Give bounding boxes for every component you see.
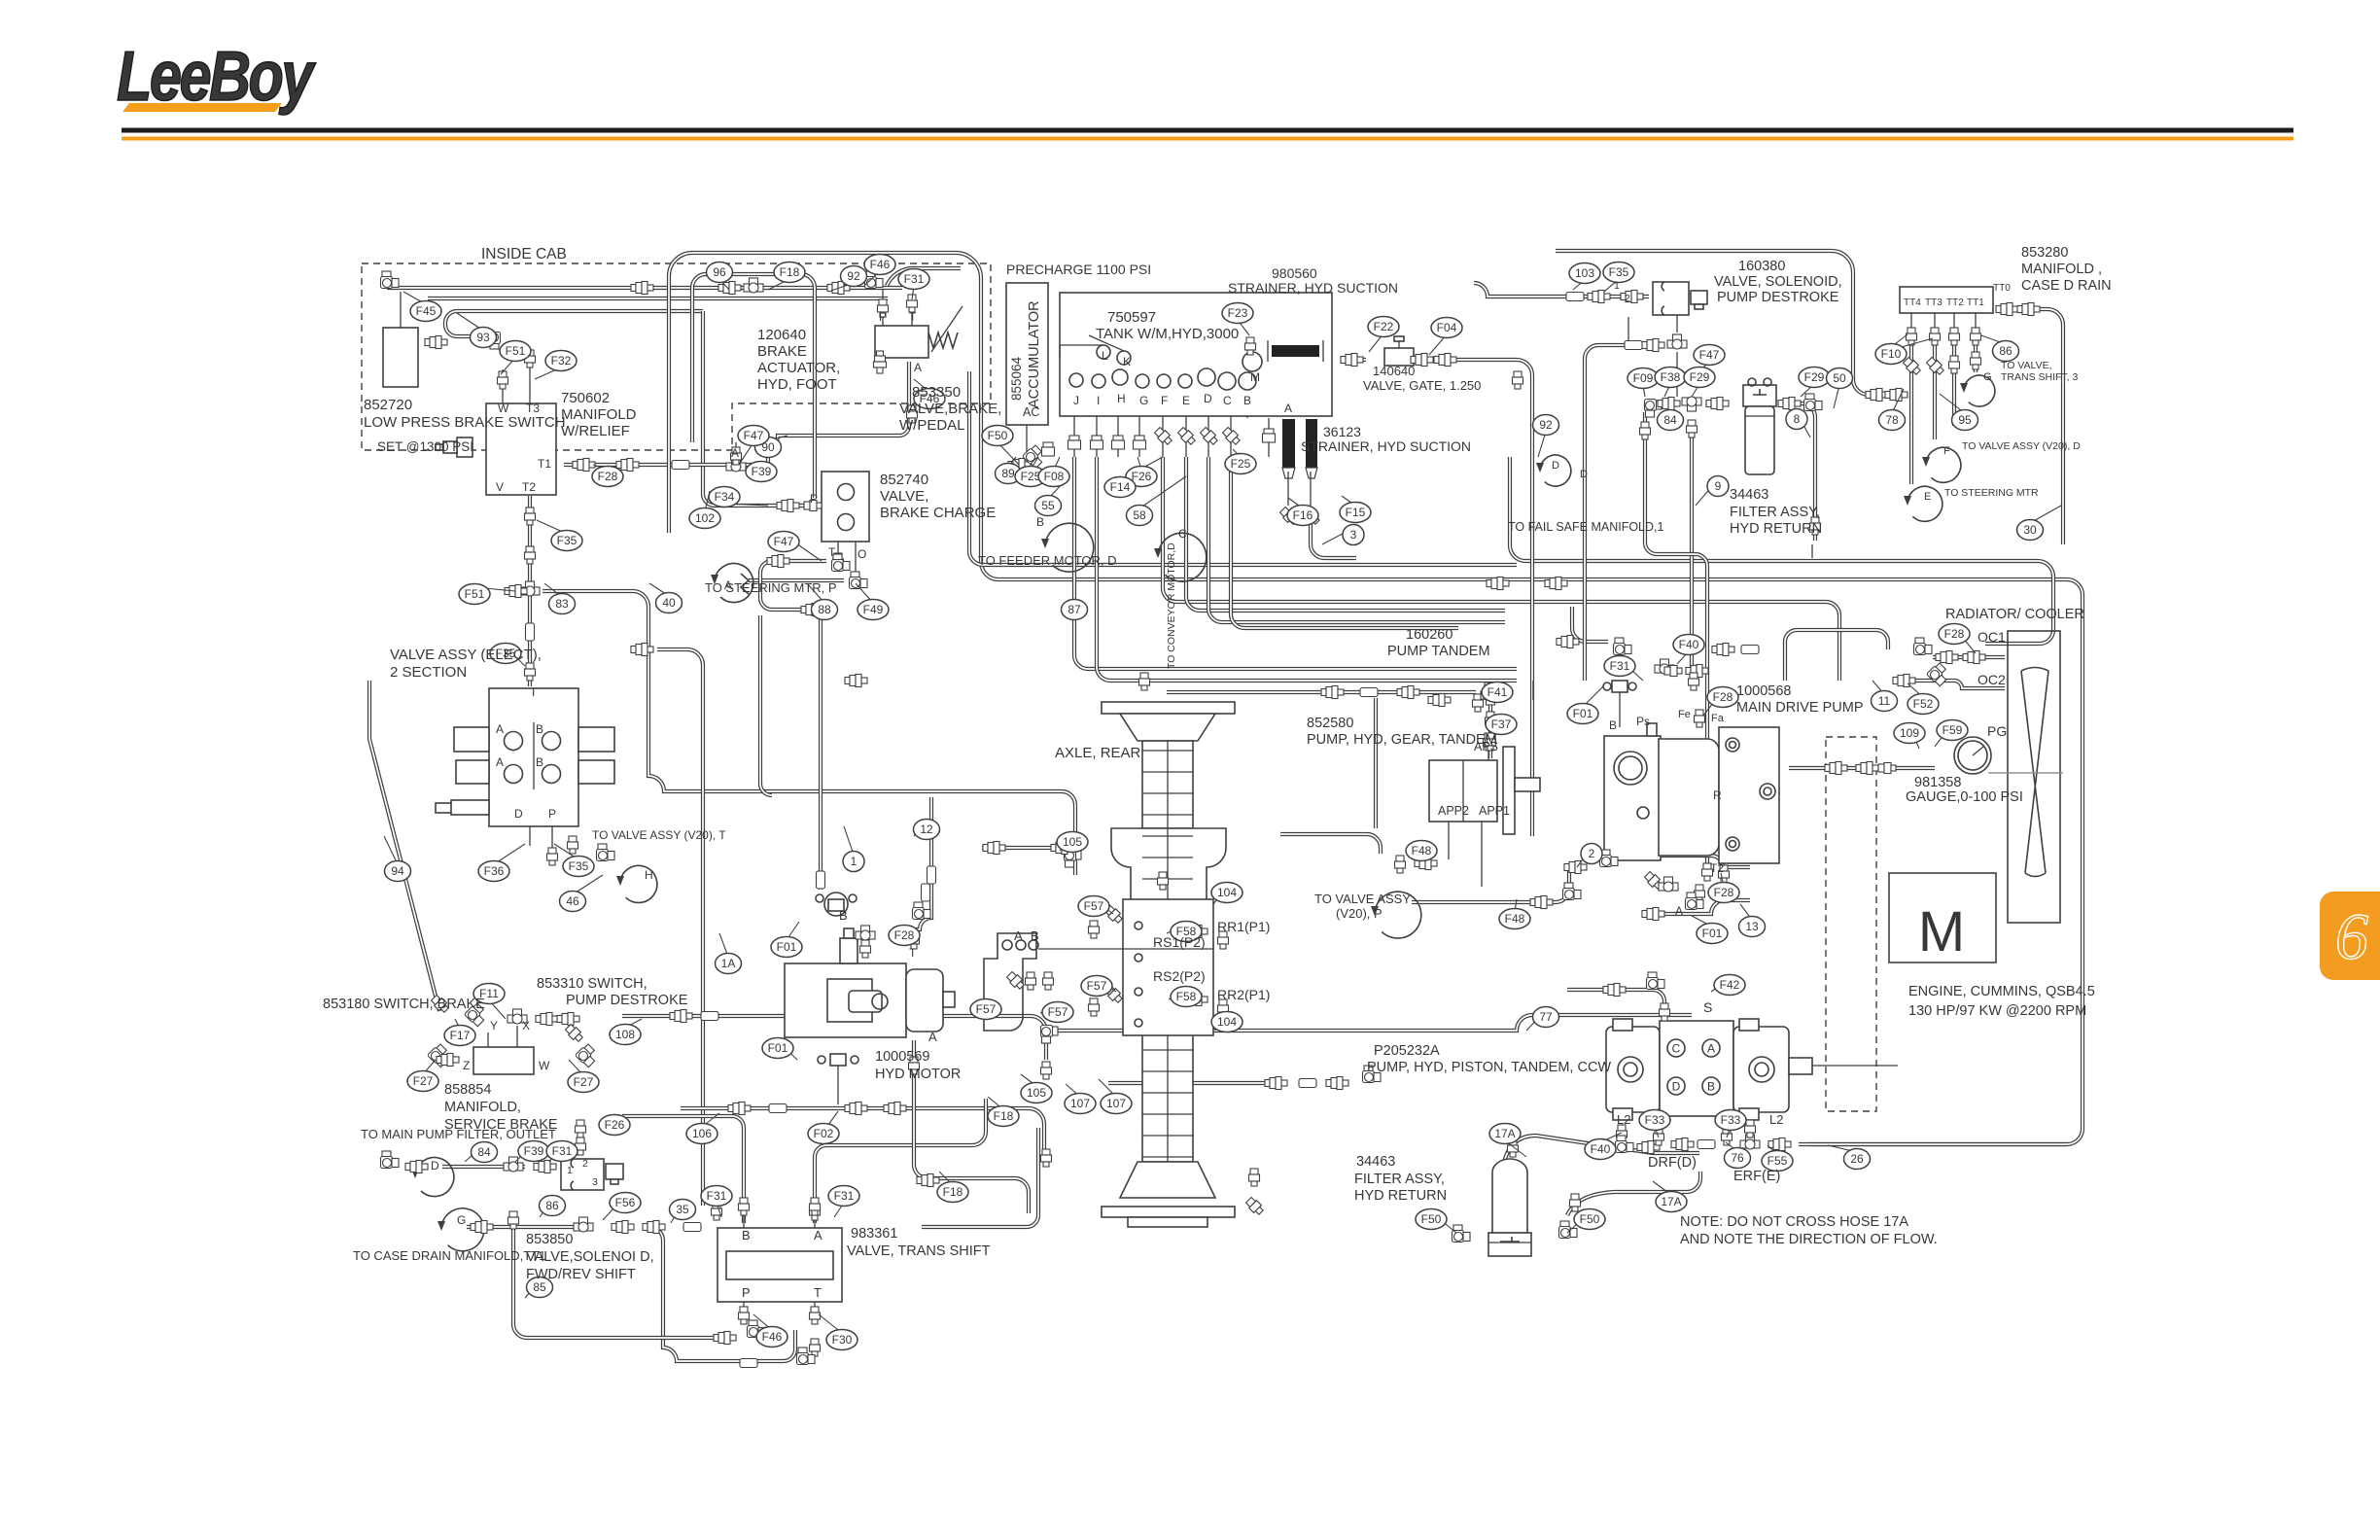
fitting (860, 940, 871, 958)
svg-text:VALVE ASSY (ELECT),: VALVE ASSY (ELECT), (390, 647, 542, 663)
gauge PG (1954, 737, 1991, 774)
fitting (504, 1157, 523, 1172)
fitting (728, 1102, 751, 1115)
svg-text:46: 46 (566, 894, 579, 908)
callout 94 (385, 861, 411, 882)
callout 11 (1872, 691, 1898, 712)
svg-text:A: A (731, 446, 739, 460)
rotation arrow node (620, 865, 657, 902)
svg-text:F36: F36 (484, 864, 505, 878)
svg-text:F31: F31 (707, 1189, 727, 1203)
svg-text:TT0: TT0 (1993, 283, 2011, 294)
wire (529, 369, 531, 403)
fitting (1885, 389, 1907, 402)
svg-text:A: A (1014, 928, 1023, 943)
callout F41 (1482, 682, 1513, 703)
fitting (1682, 397, 1701, 411)
fitting (1768, 1138, 1791, 1151)
svg-text:APP2: APP2 (1438, 804, 1469, 818)
tank port (1117, 351, 1131, 365)
svg-text:D: D (1580, 469, 1588, 480)
callout F35 (1603, 262, 1634, 283)
callout F26 (599, 1115, 630, 1136)
fitting (573, 459, 595, 472)
callout 104 (1211, 883, 1242, 903)
svg-text:D: D (431, 1159, 439, 1172)
callout 83 (549, 594, 576, 614)
hose 26 bottom (1799, 1142, 2067, 1146)
hose F18 bottom (914, 1040, 1029, 1213)
svg-text:F57: F57 (976, 1002, 997, 1016)
svg-text:86: 86 (545, 1199, 559, 1212)
fitting (1664, 666, 1682, 677)
rotation arrow node (415, 1158, 454, 1197)
svg-text:VALVE,: VALVE, (880, 488, 928, 505)
svg-text:TO CASE DRAIN MANIFOLD,TT1: TO CASE DRAIN MANIFOLD,TT1 (353, 1248, 545, 1263)
callout F42 (1714, 975, 1745, 996)
hose 11 left (1785, 630, 1888, 681)
fitting (1265, 1077, 1287, 1090)
callout 85 (527, 1277, 553, 1298)
callout F47 (1694, 345, 1725, 366)
hose tank suction (1341, 358, 1366, 362)
fitting (1263, 429, 1276, 442)
callout F57 (1081, 976, 1112, 997)
fitting (1659, 877, 1678, 892)
callout F50 (1416, 1209, 1447, 1230)
callout F25 (1015, 467, 1046, 487)
callout F22 (1368, 317, 1399, 337)
wire (1138, 388, 1140, 457)
fitting (810, 1203, 821, 1220)
svg-text:STRAINER, HYD SUCTION: STRAINER, HYD SUCTION (1301, 438, 1471, 454)
svg-text:F18: F18 (994, 1109, 1014, 1123)
svg-text:17A: 17A (1494, 1127, 1515, 1140)
hose 2 right (1600, 856, 1750, 867)
main drive pump 1000568 (1604, 723, 1779, 863)
svg-text:55: 55 (1041, 499, 1055, 512)
fitting (1341, 354, 1363, 367)
fitting (534, 1161, 556, 1173)
svg-text:F51: F51 (506, 344, 526, 358)
hose trans B up (622, 1116, 744, 1223)
callout F15 (1340, 503, 1371, 523)
fitting (1278, 506, 1299, 526)
hose 107 loop (922, 1128, 1038, 1227)
fitting (1642, 339, 1664, 352)
svg-text:M: M (1918, 900, 1965, 963)
svg-text:FWD/REV SHIFT: FWD/REV SHIFT (526, 1267, 636, 1282)
hose 86 row (467, 1225, 583, 1229)
svg-text:17A: 17A (1661, 1195, 1681, 1208)
fitting (465, 1002, 489, 1027)
svg-text:120640: 120640 (757, 327, 806, 343)
svg-text:A: A (1707, 1042, 1715, 1056)
svg-text:TO VALVE ASSY (V20), T: TO VALVE ASSY (V20), T (592, 828, 726, 842)
hose 9 drop (1690, 420, 1694, 676)
wire (1487, 734, 1489, 760)
svg-text:F27: F27 (574, 1075, 594, 1089)
callout 106 (686, 1124, 717, 1144)
svg-text:G: G (457, 1213, 466, 1227)
fitting (1564, 861, 1587, 874)
fitting (1023, 444, 1047, 469)
fitting (777, 500, 799, 512)
wire (837, 1066, 839, 1104)
svg-text:106: 106 (692, 1127, 712, 1140)
svg-text:F50: F50 (1580, 1212, 1600, 1226)
fitting (1616, 1136, 1634, 1153)
callout 89 (996, 464, 1022, 484)
fitting (1741, 646, 1759, 654)
fitting (1249, 1169, 1260, 1186)
fitting (1486, 712, 1496, 729)
svg-text:F56: F56 (615, 1196, 636, 1209)
fitting (405, 1161, 428, 1173)
svg-text:C: C (1672, 1042, 1681, 1056)
RS valve block (1038, 899, 1213, 1035)
hose top backbone (669, 253, 2082, 1144)
fitting (381, 271, 400, 289)
svg-text:TO CONVEYOR MOTOR,D: TO CONVEYOR MOTOR,D (1166, 542, 1177, 669)
fitting (907, 405, 918, 423)
svg-text:E: E (1182, 394, 1190, 407)
svg-text:G: G (1983, 371, 1992, 383)
fitting (1103, 904, 1124, 925)
svg-text:P: P (810, 492, 818, 506)
tank port (1239, 372, 1256, 390)
svg-text:AND NOTE THE DIRECTION OF FLOW: AND NOTE THE DIRECTION OF FLOW. (1680, 1232, 1938, 1247)
fitting (1484, 682, 1502, 700)
callout F10 (1875, 344, 1907, 365)
wire (1310, 472, 1312, 506)
svg-text:102: 102 (695, 511, 715, 525)
hose 85b (513, 1212, 724, 1338)
fitting (526, 623, 535, 641)
svg-text:84: 84 (477, 1145, 491, 1159)
fitting (1745, 1120, 1756, 1137)
svg-text:F01: F01 (768, 1041, 788, 1055)
svg-text:F26: F26 (1132, 470, 1152, 483)
svg-text:93: 93 (476, 331, 490, 344)
fitting (683, 1223, 701, 1232)
svg-text:F14: F14 (1110, 480, 1131, 494)
svg-text:F31: F31 (1610, 659, 1630, 673)
svg-text:F01: F01 (1702, 927, 1723, 940)
hose gate valve to pump (1415, 360, 1532, 836)
hose caseDrain TT0 (2036, 309, 2063, 544)
svg-text:F39: F39 (752, 465, 772, 478)
svg-text:A: A (914, 361, 922, 374)
callout 17A (1489, 1124, 1521, 1144)
svg-text:1: 1 (567, 1165, 573, 1176)
callout 1A (716, 954, 742, 974)
callout 30 (2017, 520, 2044, 541)
svg-text:858854: 858854 (444, 1082, 491, 1098)
wire (1246, 390, 1248, 418)
fitting (927, 866, 936, 884)
callout 105 (1021, 1083, 1052, 1103)
callout 9 (1707, 476, 1729, 497)
svg-text:MANIFOLD,: MANIFOLD, (444, 1100, 521, 1115)
svg-text:853280: 853280 (2021, 245, 2068, 261)
fitting (856, 926, 875, 940)
svg-text:HYD, FOOT: HYD, FOOT (757, 376, 837, 393)
fitting (1199, 426, 1219, 446)
fitting (557, 1013, 579, 1026)
svg-text:F04: F04 (1437, 321, 1457, 334)
svg-text:F47: F47 (744, 429, 764, 442)
svg-text:F01: F01 (1573, 707, 1593, 720)
svg-text:F09: F09 (1633, 371, 1654, 385)
svg-text:RR2(P1): RR2(P1) (1217, 987, 1270, 1002)
hose 13 loop (1653, 900, 1750, 914)
fitting (1878, 763, 1896, 774)
svg-text:F08: F08 (1044, 470, 1065, 483)
callout 3 (1343, 525, 1364, 545)
svg-text:TT1: TT1 (1967, 297, 1984, 308)
fitting (1740, 1135, 1760, 1149)
hose 96 second row (428, 297, 888, 300)
callout F58 (1171, 987, 1202, 1007)
fitting (1686, 892, 1704, 910)
hose TT1 drop (1974, 340, 1977, 372)
svg-text:107: 107 (1106, 1097, 1126, 1110)
svg-text:F33: F33 (1721, 1113, 1741, 1127)
svg-text:86: 86 (1999, 344, 2012, 358)
fitting (1907, 328, 1917, 345)
fitting (597, 844, 615, 861)
callout F27 (407, 1071, 438, 1092)
hose second backbone (692, 274, 815, 498)
fitting (1089, 921, 1100, 938)
fitting (1068, 436, 1081, 449)
hose 577 run (1510, 457, 2053, 644)
svg-text:Fa: Fa (1711, 713, 1725, 724)
fitting (1245, 337, 1256, 355)
callout F46 (914, 389, 945, 409)
fitting (1971, 328, 1981, 345)
axle rear (1102, 702, 1235, 1227)
svg-text:TRANS SHIFT, 3: TRANS SHIFT, 3 (2001, 371, 2079, 383)
callout F01 (771, 937, 802, 958)
svg-text:D: D (1552, 460, 1559, 472)
svg-text:R: R (1713, 788, 1722, 802)
fitting (1588, 291, 1610, 303)
svg-text:F28: F28 (894, 928, 915, 942)
svg-text:13: 13 (1745, 920, 1759, 933)
wire (882, 290, 884, 326)
svg-text:OC2: OC2 (1977, 672, 2006, 687)
svg-text:85: 85 (533, 1280, 546, 1294)
case drain manifold 853280 (1900, 287, 1993, 313)
fitting (1856, 762, 1878, 775)
callout F28 (592, 467, 623, 487)
logo orange underline (122, 103, 282, 112)
wire (1230, 389, 1232, 457)
svg-text:30: 30 (2023, 523, 2037, 537)
fitting (1559, 1221, 1578, 1239)
svg-text:X: X (522, 1019, 530, 1032)
fitting (471, 1221, 493, 1234)
svg-text:TO STEERING MTR: TO STEERING MTR (1944, 487, 2039, 499)
svg-text:ACTUATOR,: ACTUATOR, (757, 360, 840, 376)
callout F26 (1126, 467, 1157, 487)
svg-text:107: 107 (1070, 1097, 1090, 1110)
svg-text:PRECHARGE 1100 PSI: PRECHARGE 1100 PSI (1006, 262, 1151, 277)
fitting (1686, 665, 1708, 678)
svg-text:F48: F48 (1412, 844, 1432, 857)
callout F38 (1655, 367, 1686, 388)
hose 85 T-return (760, 561, 838, 610)
svg-text:96: 96 (713, 265, 726, 279)
callout F37 (1486, 715, 1517, 735)
svg-text:P: P (879, 310, 887, 324)
hose TT4 drop (1909, 340, 1913, 484)
svg-text:F55: F55 (1767, 1154, 1788, 1168)
fitting (884, 1102, 906, 1115)
callout F28 (889, 926, 920, 946)
tank port (1198, 368, 1215, 386)
svg-text:O: O (857, 547, 866, 561)
fitting (1176, 426, 1197, 446)
fitting (850, 572, 868, 589)
fitting (1660, 1003, 1670, 1021)
fitting (1484, 733, 1494, 751)
callout F48 (1406, 841, 1437, 861)
svg-text:P: P (548, 807, 556, 821)
svg-text:F01: F01 (777, 940, 797, 954)
relief screw (436, 437, 472, 457)
svg-text:F35: F35 (569, 859, 589, 873)
fitting (1091, 436, 1103, 449)
svg-text:1000569: 1000569 (875, 1049, 929, 1065)
fitting (425, 336, 447, 349)
hose TT3 drop (1933, 340, 1937, 439)
fitting (1434, 354, 1456, 367)
svg-text:26: 26 (1850, 1152, 1864, 1166)
fitting (1914, 638, 1933, 655)
fitting (874, 351, 887, 373)
fitting (1065, 850, 1082, 868)
fitting (507, 1009, 527, 1024)
hose APS stem (1488, 699, 1492, 758)
fitting (748, 1320, 766, 1338)
svg-text:1: 1 (1614, 280, 1620, 292)
svg-text:RS2(P2): RS2(P2) (1153, 968, 1206, 984)
svg-text:TT2: TT2 (1946, 297, 1964, 308)
hose 88 steering (749, 578, 844, 582)
callout 17A (1656, 1192, 1687, 1212)
callout F50 (982, 426, 1013, 446)
fitting (1963, 651, 1985, 664)
svg-text:F50: F50 (988, 429, 1008, 442)
callout 58 (1127, 506, 1153, 526)
fitting (804, 501, 822, 511)
callout 90 (755, 437, 782, 458)
svg-text:B: B (1609, 718, 1617, 732)
svg-text:104: 104 (1217, 1015, 1237, 1029)
svg-text:B: B (1707, 1080, 1715, 1094)
fitting (1411, 354, 1433, 367)
fitting (1218, 931, 1229, 949)
fitting (1428, 694, 1451, 707)
svg-text:TO VALVE ASSY: TO VALVE ASSY (1314, 892, 1411, 906)
svg-text:92: 92 (847, 269, 860, 283)
callout F51 (500, 341, 531, 362)
fitting (909, 931, 920, 949)
hose 40 (542, 591, 1075, 852)
fitting (1643, 870, 1663, 891)
svg-text:F18: F18 (780, 265, 800, 279)
fitting (1712, 644, 1734, 656)
svg-text:2 SECTION: 2 SECTION (390, 664, 467, 681)
callout F34 (709, 487, 740, 507)
pump B flange F01 (1603, 681, 1636, 692)
svg-text:B: B (742, 1228, 751, 1242)
svg-text:87: 87 (1067, 603, 1081, 616)
fitting (1706, 398, 1729, 410)
fitting (1326, 1077, 1348, 1090)
svg-text:34463: 34463 (1730, 487, 1768, 503)
fitting (714, 1332, 736, 1345)
wire (1448, 822, 1450, 859)
svg-text:F28: F28 (598, 470, 618, 483)
fitting (731, 447, 742, 465)
fitting (508, 1211, 519, 1229)
svg-text:VALVE,SOLENOI D,: VALVE,SOLENOI D, (526, 1249, 654, 1265)
fitting (1487, 577, 1509, 590)
svg-text:F16: F16 (1293, 508, 1313, 522)
svg-text:983361: 983361 (851, 1226, 897, 1242)
orange chapter tab 6 (2320, 892, 2380, 980)
fitting (525, 507, 536, 525)
callout 77 (1533, 1007, 1559, 1028)
fitting (520, 581, 540, 596)
low press brake switch 852720 (383, 328, 418, 387)
svg-text:F25: F25 (1231, 457, 1251, 471)
rotation arrow node (441, 1208, 484, 1251)
svg-text:W: W (498, 402, 509, 415)
callout F25 (1225, 454, 1256, 474)
svg-text:PUMP, HYD, PISTON, TANDEM, CCW: PUMP, HYD, PISTON, TANDEM, CCW (1367, 1060, 1611, 1075)
fitting (1360, 688, 1378, 697)
callout 12 (914, 820, 940, 840)
svg-text:F45: F45 (416, 304, 437, 318)
svg-text:1000568: 1000568 (1736, 683, 1791, 699)
fitting (1415, 857, 1437, 870)
callout F33 (1639, 1110, 1670, 1131)
callout F35 (490, 644, 521, 664)
svg-text:P205232A: P205232A (1374, 1043, 1440, 1059)
svg-text:852720: 852720 (364, 397, 412, 413)
fitting (1927, 662, 1951, 686)
callout 93 (471, 328, 497, 348)
gate valve 140640 (1384, 336, 1414, 366)
svg-text:103: 103 (1575, 266, 1594, 280)
svg-text:F49: F49 (863, 603, 884, 616)
svg-text:T3: T3 (526, 402, 540, 415)
fitting (564, 1023, 584, 1043)
tank port (1157, 374, 1171, 388)
svg-text:MAIN DRIVE PUMP: MAIN DRIVE PUMP (1736, 700, 1864, 716)
hose 102 vertical (703, 311, 819, 506)
destroke solenoid valve 160380 (1653, 282, 1707, 397)
hose bundle row4 (1231, 457, 1458, 628)
fitting (1810, 517, 1821, 535)
svg-text:F37: F37 (1491, 717, 1512, 731)
wire (1117, 385, 1119, 457)
